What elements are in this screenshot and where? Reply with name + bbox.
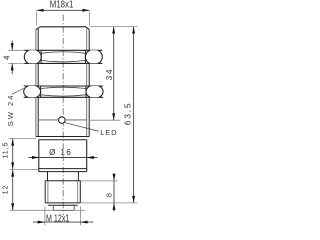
svg-text:M 12x1: M 12x1 [46,213,70,224]
svg-text:12: 12 [1,185,10,195]
svg-text:8: 8 [105,193,114,197]
svg-text:M18x1: M18x1 [50,0,74,11]
svg-text:4: 4 [3,55,12,60]
svg-text:11,5: 11,5 [0,142,9,159]
svg-text:34: 34 [105,68,114,81]
svg-text:63,5: 63,5 [124,102,133,126]
svg-text:SW 24: SW 24 [6,94,15,127]
svg-text:LED: LED [100,128,117,137]
svg-text:Ø 16: Ø 16 [49,148,72,157]
